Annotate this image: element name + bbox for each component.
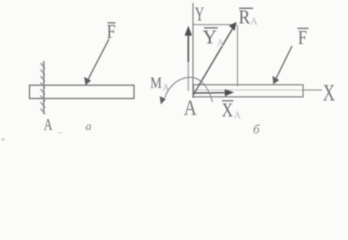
figure b : component vector X_A — [194, 92, 226, 94]
scan speck bottom left — [2, 138, 5, 141]
svg-text:A: A — [250, 17, 258, 28]
scan speck — [58, 132, 63, 133]
figure b : X_A label bar — [222, 100, 234, 102]
figure b : force F arrow — [275, 46, 292, 81]
figure b : construction line right — [237, 25, 239, 87]
figure b : moment arc arrowhead — [160, 96, 166, 104]
svg-text:A: A — [44, 116, 53, 134]
figure b : component vector Y_A — [187, 62, 189, 91]
figure a : force label F bar — [108, 22, 116, 24]
figure b : reaction vector R_A — [194, 28, 234, 95]
figure b : beam — [194, 85, 304, 97]
svg-text:а: а — [86, 119, 92, 133]
figure a : force F arrow — [87, 39, 109, 82]
svg-text:M: M — [150, 75, 162, 93]
svg-text:Y: Y — [195, 3, 205, 25]
figure b : Y_A label bar — [204, 27, 218, 29]
figure b : moment arc — [165, 77, 213, 102]
figure b : R_A label bar — [239, 7, 253, 9]
svg-text:A: A — [234, 111, 242, 122]
svg-text:б: б — [253, 122, 260, 137]
svg-text:A: A — [163, 83, 170, 93]
svg-text:X: X — [323, 81, 336, 106]
svg-text:Y: Y — [203, 26, 217, 48]
svg-text:F: F — [298, 26, 307, 48]
figure a : wall line — [43, 61, 45, 114]
figure b : force label F bar — [297, 27, 308, 29]
figure a : beam — [30, 85, 135, 98]
figure a : wall hatching — [40, 63, 45, 114]
figure b : X axis — [193, 89, 322, 91]
figure b : Y axis — [192, 3, 194, 98]
svg-text:A: A — [184, 96, 197, 120]
svg-text:R: R — [239, 6, 251, 29]
svg-text:F: F — [107, 20, 116, 42]
figure b : construction line top — [193, 24, 237, 26]
svg-text:X: X — [222, 99, 233, 121]
svg-text:A: A — [217, 38, 225, 49]
